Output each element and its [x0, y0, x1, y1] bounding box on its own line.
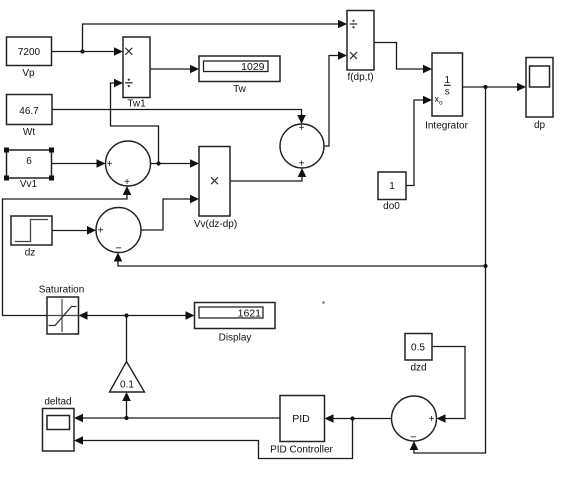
- product block Tw1: [123, 37, 150, 110]
- svg-text:s: s: [445, 87, 450, 98]
- svg-text:−: −: [115, 243, 121, 255]
- step block dz: [11, 216, 52, 259]
- wire feedback branch to S2 bottom input: [114, 253, 486, 267]
- wire Tw1 output to display Tw: [151, 65, 200, 74]
- wire Integrator output to scope dp: [463, 83, 527, 92]
- svg-text:+: +: [98, 226, 104, 237]
- junction on Vp output: [80, 49, 84, 53]
- wire f(dp,t) output to Integrator input: [374, 43, 432, 74]
- svg-text:do0: do0: [383, 201, 400, 212]
- svg-text:1621: 1621: [238, 308, 262, 320]
- wire branch from S4 output down around to deltad second input: [74, 419, 353, 459]
- constant block Vp (7200): [7, 37, 52, 79]
- wire S1 output to Vv(dz-dp) first input: [151, 159, 200, 168]
- svg-text:dz: dz: [25, 248, 36, 259]
- svg-text:1: 1: [445, 75, 451, 86]
- junction on feedback at dz row: [483, 264, 487, 268]
- svg-text:7200: 7200: [18, 47, 41, 58]
- sum junction S4 (bottom right, + -): [392, 396, 437, 444]
- scope block deltad: [43, 397, 75, 452]
- wire junction right into Display input: [127, 311, 195, 320]
- integrator block U=1/s: [425, 53, 468, 132]
- scope block dp: [526, 58, 553, 132]
- wire PID output to deltad first input: [74, 414, 280, 423]
- constant block do0 (1): [378, 172, 406, 212]
- svg-text:+: +: [429, 414, 435, 425]
- gain block 0.1 (triangle pointing up): [110, 362, 145, 393]
- sum junction S3 (middle, + +): [280, 123, 324, 170]
- wire dzd to sum S4 right input: [432, 347, 465, 423]
- svg-text:+: +: [107, 159, 113, 170]
- svg-text:Vv1: Vv1: [20, 179, 38, 190]
- svg-text:+: +: [299, 159, 305, 170]
- wire S2 output to Vv(dz-dp) second input: [141, 195, 199, 230]
- svg-text:Tw: Tw: [233, 84, 247, 95]
- wire main feedback vertical from Integrator output down: [410, 87, 486, 453]
- product block Vv(dz-dp): [194, 147, 237, 231]
- svg-text:Saturation: Saturation: [39, 285, 85, 296]
- wire Saturation output feedback to S1 bottom input: [3, 186, 132, 316]
- sum junction S2 (left lower, + -): [96, 208, 141, 255]
- wire S1 output branch up to Tw1 divide input: [111, 79, 159, 164]
- svg-text:46.7: 46.7: [19, 106, 39, 117]
- svg-text:6: 6: [26, 156, 32, 167]
- wire Vv1 to sum S1 left input: [52, 159, 106, 168]
- display block Tw (1029): [199, 56, 280, 95]
- junction above gain: [124, 313, 128, 317]
- svg-text:1029: 1029: [241, 61, 265, 73]
- wire Vv(dz-dp) output to sum S3 bottom input: [230, 168, 306, 181]
- svg-text:Tw1: Tw1: [127, 99, 146, 110]
- svg-text:Integrator: Integrator: [425, 121, 468, 132]
- junction on PID output wire: [124, 416, 128, 420]
- junction on S4 output wire: [350, 416, 354, 420]
- junction on S1 output: [156, 161, 160, 165]
- svg-text:dp: dp: [534, 120, 546, 131]
- svg-text:Display: Display: [219, 333, 252, 344]
- svg-text:PID: PID: [292, 413, 310, 425]
- svg-text:0.1: 0.1: [120, 380, 134, 391]
- wire dz to sum S2 left input: [52, 226, 96, 235]
- wire Wt to sum S3 top input: [52, 110, 306, 125]
- wire do0 to Integrator x0 input: [406, 96, 432, 186]
- svg-text:Vv(dz-dp): Vv(dz-dp): [194, 219, 237, 230]
- display block Display (1621): [195, 303, 276, 344]
- wire S4 output to PID input: [325, 414, 392, 423]
- svg-text:1: 1: [389, 181, 395, 192]
- PID controller block: [270, 396, 333, 456]
- wire Vp junction up and right to f(dp,t) divide input: [83, 20, 348, 52]
- product block f(dp,t): [347, 11, 374, 84]
- svg-text:−: −: [410, 432, 416, 444]
- svg-text:+: +: [299, 123, 305, 134]
- svg-text:deltad: deltad: [44, 397, 71, 408]
- wire S3 output up to f(dp,t) multiply input: [324, 51, 347, 146]
- svg-text:Wt: Wt: [23, 127, 35, 138]
- wire branch up into gain 0.1 input: [122, 392, 131, 418]
- svg-text:o: o: [439, 100, 443, 107]
- junction on Integrator output: [483, 85, 487, 89]
- svg-text:dzd: dzd: [410, 363, 426, 374]
- wire junction left into Saturation input: [79, 311, 127, 320]
- stray dot artifact: [322, 301, 325, 304]
- sum junction S1 (left top, + +): [106, 141, 151, 188]
- svg-text:PID Controller: PID Controller: [270, 445, 333, 456]
- constant block Vv1 (6) with selection handles: [4, 148, 54, 191]
- svg-text:0.5: 0.5: [411, 343, 425, 354]
- wire Vp to Tw1 x-input: [52, 47, 124, 56]
- saturation block: [39, 285, 85, 335]
- svg-text:Vp: Vp: [22, 68, 35, 79]
- constant block dzd (0.5): [405, 334, 432, 374]
- svg-text:f(dp,t): f(dp,t): [347, 72, 373, 83]
- wire gain 0.1 output up to junction: [126, 316, 128, 362]
- constant block Wt (46.7): [7, 95, 53, 139]
